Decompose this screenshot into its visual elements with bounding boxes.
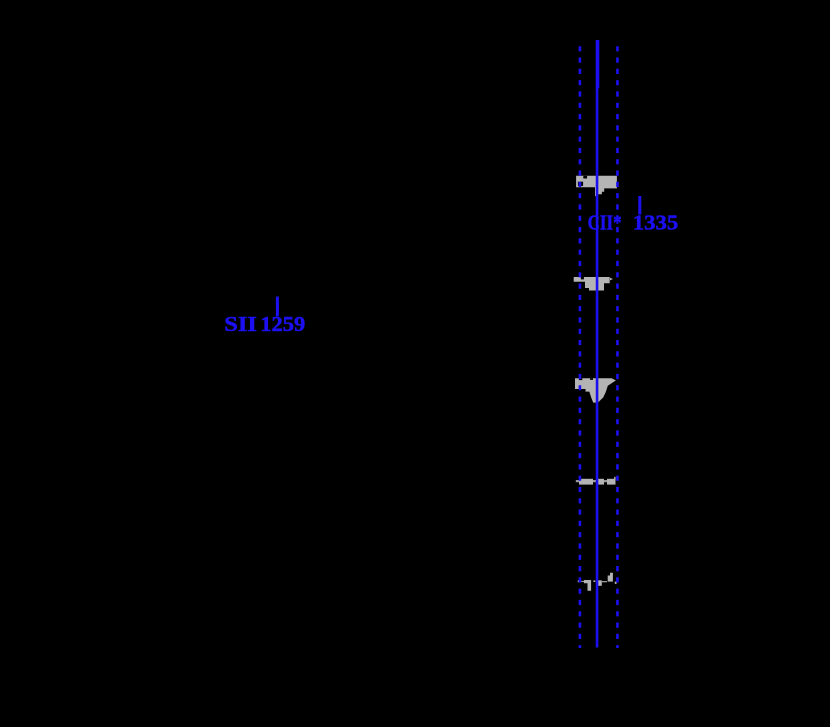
spectrum segment A notch (578, 182, 583, 186)
tick above CII* label (638, 196, 641, 215)
spectrum segment C top nicks (579, 378, 582, 380)
svg-text:1259: 1259 (260, 312, 305, 336)
dashed velocity-limit line right (616, 46, 619, 648)
solid line thicker top segment (596, 40, 599, 88)
svg-text:CII*: CII* (588, 211, 622, 235)
spectrum segment D right tail (614, 477, 615, 480)
dashed velocity-limit line left (579, 46, 582, 648)
svg-text:1335: 1335 (633, 211, 679, 235)
spectrum segment C (y~378-403, deep dip) (575, 378, 616, 402)
svg-text:SII: SII (224, 312, 257, 336)
spectrum segment D (thin band y~479-484) (576, 480, 616, 482)
spectrum segment E (y~573-591) (578, 580, 580, 582)
spectrum segment A (top, y~176-196) (576, 176, 617, 196)
spectrum segment B (y~277-291) (574, 277, 610, 291)
solid systemic-velocity line (596, 40, 599, 648)
tick above SII label (276, 297, 279, 317)
spectrum segment B top nick (581, 277, 584, 279)
spectrum segment A top nick (583, 176, 587, 179)
spectrum segment B right tip (610, 278, 613, 281)
